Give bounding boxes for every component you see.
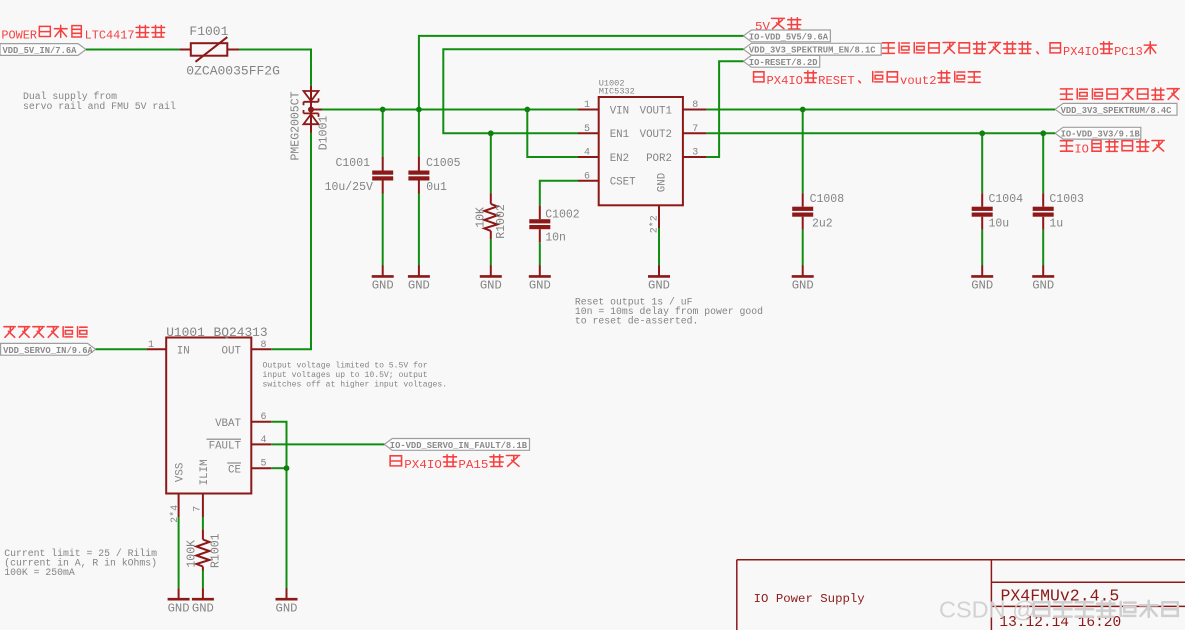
- svg-text:VBAT: VBAT: [215, 418, 241, 430]
- svg-text:7: 7: [193, 506, 204, 512]
- svg-text:VIN: VIN: [610, 105, 629, 117]
- svg-text:VOUT2: VOUT2: [640, 129, 672, 141]
- svg-text:5: 5: [261, 459, 267, 470]
- svg-text:switches off at higher input v: switches off at higher input voltages.: [263, 380, 448, 389]
- capacitor C1001: [372, 157, 393, 194]
- wire U1001 VSS to ground: [178, 517, 180, 588]
- wire C1003 to ground: [1042, 230, 1044, 266]
- svg-text:EN1: EN1: [610, 129, 629, 141]
- ground (C1004): [971, 265, 993, 292]
- ground (R1001): [192, 588, 214, 615]
- junction 5V rail / EN2 jog: [524, 107, 530, 113]
- svg-text:U1001: U1001: [166, 325, 205, 340]
- diode D1001 PMEG2005CT: [304, 86, 323, 133]
- wire VOUT2 to IO-VDD_3V3 label: [706, 132, 1055, 134]
- svg-text:IO-VDD_3V3/9.1B: IO-VDD_3V3/9.1B: [1061, 130, 1141, 140]
- svg-text:10u: 10u: [989, 218, 1010, 231]
- watermark CSDN: [939, 597, 1036, 623]
- net label IO-VDD_5V5/9.6A: [743, 30, 830, 42]
- svg-text:GND: GND: [1032, 279, 1054, 293]
- svg-text:GND: GND: [648, 279, 670, 293]
- svg-text:100K: 100K: [185, 540, 198, 568]
- svg-text:IN: IN: [177, 345, 190, 357]
- svg-text:servo rail and FMU 5V rail: servo rail and FMU 5V rail: [23, 101, 176, 112]
- svg-text:1: 1: [148, 340, 154, 351]
- svg-text:VDD_5V_IN/7.6A: VDD_5V_IN/7.6A: [3, 46, 78, 56]
- annotation: 5V voltage (red): [755, 18, 801, 34]
- svg-text:C1005: C1005: [426, 157, 461, 170]
- svg-text:7: 7: [692, 124, 698, 135]
- svg-text:IO Power Supply: IO Power Supply: [754, 592, 865, 606]
- ground (C1001): [372, 265, 394, 292]
- svg-text:MIC5332: MIC5332: [599, 86, 635, 96]
- svg-text:100K = 250mA: 100K = 250mA: [4, 567, 75, 578]
- svg-text:2*4: 2*4: [169, 505, 181, 523]
- net label VDD_3V3_SPEKTRUM/8.4C: [1055, 103, 1177, 115]
- svg-text:GND: GND: [192, 602, 214, 616]
- ground (C1008): [792, 265, 814, 292]
- svg-text:2*2: 2*2: [648, 215, 660, 233]
- svg-text:IO-VDD_SERVO_IN_FAULT/8.1B: IO-VDD_SERVO_IN_FAULT/8.1B: [390, 441, 528, 451]
- svg-text:CSET: CSET: [610, 177, 636, 189]
- svg-text:VOUT1: VOUT1: [640, 105, 672, 117]
- IC U1001 BQ24313 current limiter: [147, 338, 272, 518]
- svg-text:BQ24313: BQ24313: [214, 325, 268, 340]
- svg-text:10n: 10n: [545, 232, 566, 245]
- ground (C1005): [408, 265, 430, 292]
- svg-text:GND: GND: [792, 279, 814, 293]
- wire C1005 to 5V rail: [418, 110, 420, 158]
- wire R1002 to ground: [490, 239, 492, 266]
- svg-text:C1004: C1004: [989, 193, 1024, 206]
- junction VOUT2 / C1003: [1040, 130, 1046, 136]
- annotation: PX4IO RESET vout2 (red): [754, 71, 981, 88]
- wire C1004 to ground: [981, 230, 983, 266]
- ground (U1002 GND): [648, 265, 670, 292]
- net label IO-VDD_3V3/9.1B: [1055, 127, 1141, 139]
- svg-text:GND: GND: [656, 173, 668, 192]
- fuse F1001 0ZCA0035FF2G: [179, 37, 239, 62]
- annotation: power to IO MCU (red): [1060, 140, 1164, 157]
- ground (C1002): [529, 265, 551, 292]
- svg-text:POR2: POR2: [646, 153, 672, 165]
- svg-text:vout2: vout2: [900, 74, 936, 88]
- svg-text:GND: GND: [276, 602, 298, 616]
- capacitor C1003: [1033, 193, 1054, 230]
- svg-text:6: 6: [584, 171, 590, 182]
- wire POR2 to IO-RESET label: [706, 61, 743, 157]
- capacitor C1002: [529, 206, 550, 243]
- junction VOUT1 / C1008: [800, 107, 806, 113]
- svg-text:10K: 10K: [475, 207, 488, 228]
- annotation: PX4IO PA15 pin (red): [390, 455, 519, 472]
- note: current limit: [4, 548, 157, 578]
- svg-text:R1002: R1002: [495, 204, 508, 239]
- svg-text:PMEG2005CT: PMEG2005CT: [290, 91, 303, 160]
- op-amp U1002 MIC5332 regulator: [578, 97, 706, 228]
- svg-text:PX4IO: PX4IO: [1063, 45, 1099, 59]
- annotation: ESC power input (red): [4, 327, 87, 338]
- wire VDD_5V_IN label to fuse F1001: [86, 49, 179, 51]
- annotation: spektrum power enable PC13 (red): [882, 42, 1156, 59]
- annotation: POWER port via LTC4417 (red): [1, 25, 164, 42]
- svg-text:PC13: PC13: [1114, 45, 1143, 59]
- svg-text:IO: IO: [1074, 143, 1089, 157]
- svg-text:8: 8: [261, 340, 267, 351]
- svg-text:CE: CE: [228, 464, 241, 476]
- annotation: power to satellite receiver (red): [1060, 88, 1179, 100]
- wire VOUT1 to VDD_3V3_SPEKTRUM label: [706, 109, 1055, 111]
- svg-text:VDD_3V3_SPEKTRUM_EN/8.1C: VDD_3V3_SPEKTRUM_EN/8.1C: [749, 46, 876, 56]
- svg-text:LTC4417: LTC4417: [85, 28, 135, 42]
- svg-text:VSS: VSS: [175, 463, 187, 482]
- svg-text:10u/25V: 10u/25V: [325, 181, 373, 194]
- wire U1001 ILIM to R1001: [202, 517, 204, 529]
- wire C1004 to VOUT2 rail: [981, 133, 983, 193]
- wire C1005 to ground: [418, 194, 420, 266]
- junction EN1 / R1002: [488, 130, 494, 136]
- svg-text:GND: GND: [168, 602, 190, 616]
- junction VOUT2 / C1004: [979, 130, 985, 136]
- svg-text:5: 5: [584, 124, 590, 135]
- wire 5V rail up to IO-VDD_5V5 label: [419, 36, 744, 110]
- svg-text:4: 4: [584, 148, 590, 159]
- resistor R1002: [484, 193, 497, 239]
- wire CSET to C1002: [540, 181, 578, 206]
- svg-text:C1003: C1003: [1049, 193, 1084, 206]
- svg-text:PX4IO: PX4IO: [404, 458, 442, 472]
- svg-text:ILIM: ILIM: [199, 459, 211, 485]
- wire U1001 VBAT down to CE junction and ground: [271, 422, 286, 589]
- wire U1002 GND pin to ground: [658, 228, 660, 266]
- svg-text:OUT: OUT: [222, 345, 242, 357]
- svg-text:1: 1: [584, 100, 590, 111]
- svg-text:2u2: 2u2: [812, 218, 833, 231]
- junction 5V rail / C1005 and 5V5 tap: [416, 107, 422, 113]
- junction 5V rail / C1001: [380, 107, 386, 113]
- title block frame: [737, 560, 1185, 630]
- ground (CE net): [276, 588, 298, 615]
- svg-text:IO-RESET/8.2D: IO-RESET/8.2D: [749, 58, 818, 68]
- wire EN1 to VDD_3V3_SPEKTRUM_EN label: [443, 49, 743, 133]
- svg-text:8: 8: [692, 100, 698, 111]
- svg-text:FAULT: FAULT: [209, 441, 242, 453]
- svg-text:C1002: C1002: [545, 208, 580, 221]
- svg-text:CSDN @: CSDN @: [939, 597, 1036, 623]
- wire fuse F1001 to diode D1001 top: [239, 50, 311, 86]
- svg-text:C1008: C1008: [810, 193, 845, 206]
- ground (C1003): [1032, 265, 1054, 292]
- svg-text:RESET: RESET: [818, 74, 854, 88]
- svg-text:4: 4: [261, 435, 267, 446]
- svg-text:IO-VDD_5V5/9.6A: IO-VDD_5V5/9.6A: [749, 32, 829, 42]
- capacitor C1008: [792, 193, 813, 230]
- note: reset output delay: [575, 296, 763, 326]
- wire U1001 CE to junction: [271, 467, 286, 469]
- wire diode D1001 bottom to U1001 OUT: [271, 133, 311, 349]
- wire 5V rail: diode node to U1002 VIN: [322, 109, 578, 111]
- watermark CJK part: [1034, 601, 1178, 617]
- svg-text:C1001: C1001: [335, 157, 370, 170]
- svg-text:F1001: F1001: [189, 24, 228, 39]
- wire C1001 to 5V rail: [382, 110, 384, 158]
- svg-text:EN2: EN2: [610, 153, 629, 165]
- junction CE / VBAT net: [284, 465, 290, 471]
- svg-text:3: 3: [692, 148, 698, 159]
- note: dual supply: [23, 91, 176, 112]
- wire R1002 to EN1 net: [490, 133, 492, 193]
- wire C1001 to ground: [382, 194, 384, 266]
- net label VDD_SERVO_IN/9.6A: [1, 343, 96, 355]
- svg-text:PA15: PA15: [458, 458, 488, 472]
- svg-text:Output voltage limited to 5.5V: Output voltage limited to 5.5V for: [263, 361, 428, 370]
- svg-text:D1001: D1001: [318, 116, 331, 151]
- net label IO-RESET/8.2D: [743, 55, 819, 67]
- svg-text:GND: GND: [480, 279, 502, 293]
- svg-text:R1001: R1001: [210, 533, 223, 568]
- ground (R1002): [480, 265, 502, 292]
- ground (U1001 VSS): [168, 588, 190, 615]
- svg-text:GND: GND: [971, 279, 993, 293]
- svg-text:GND: GND: [529, 279, 551, 293]
- svg-text:to reset de-asserted.: to reset de-asserted.: [575, 315, 698, 326]
- svg-text:1u: 1u: [1049, 218, 1063, 231]
- wire C1003 to VOUT2 rail: [1042, 133, 1044, 193]
- svg-text:6: 6: [261, 412, 267, 423]
- wire VDD_SERVO_IN label to U1001 IN: [96, 348, 147, 350]
- capacitor C1005: [408, 157, 429, 194]
- wire C1008 to VOUT1 rail: [802, 110, 804, 194]
- wire U1001 FAULT to IO-VDD_SERVO_IN_FAULT label: [271, 443, 384, 445]
- wire EN2 jog from 5V rail: [527, 110, 578, 158]
- note: output voltage limited: [263, 361, 448, 389]
- resistor R1001: [196, 529, 209, 570]
- svg-text:VDD_SERVO_IN/9.6A: VDD_SERVO_IN/9.6A: [3, 346, 93, 356]
- wire C1002 to ground: [539, 242, 541, 265]
- wire C1008 to ground: [802, 230, 804, 266]
- svg-text:VDD_3V3_SPEKTRUM/8.4C: VDD_3V3_SPEKTRUM/8.4C: [1061, 106, 1173, 116]
- svg-text:GND: GND: [408, 279, 430, 293]
- net label VDD_3V3_SPEKTRUM_EN/8.1C: [743, 43, 881, 55]
- net label VDD_5V_IN/7.6A: [0, 44, 86, 56]
- pin name CE (active low): [227, 463, 241, 476]
- net label IO-VDD_SERVO_IN_FAULT/8.1B: [384, 439, 529, 451]
- svg-text:input voltages up to 10.5V; ou: input voltages up to 10.5V; output: [263, 371, 428, 380]
- capacitor C1004: [972, 193, 993, 230]
- svg-text:0u1: 0u1: [426, 181, 447, 194]
- wire R1001 to ground: [202, 571, 204, 589]
- svg-text:0ZCA0035FF2G: 0ZCA0035FF2G: [186, 64, 280, 79]
- svg-text:POWER: POWER: [1, 28, 37, 42]
- svg-text:GND: GND: [372, 279, 394, 293]
- svg-text:PX4IO: PX4IO: [767, 74, 803, 88]
- pin name FAULT (active low): [207, 439, 242, 452]
